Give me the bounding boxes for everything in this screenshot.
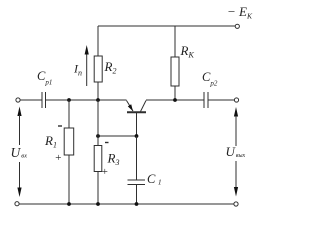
- wire RK top lead: [174, 26, 176, 57]
- svg-text:Uвых: Uвых: [226, 144, 246, 159]
- wire R2 bottom lead: [97, 82, 99, 100]
- svg-text:R1: R1: [44, 133, 57, 150]
- svg-text:+: +: [101, 166, 108, 178]
- terminal input bottom: [15, 202, 19, 206]
- label R1 minus: [58, 125, 62, 127]
- svg-text:R2: R2: [104, 59, 117, 76]
- terminal output bottom: [234, 202, 238, 206]
- svg-text:Cр1: Cр1: [37, 69, 52, 87]
- node C1 bottom: [135, 202, 139, 206]
- svg-text:RК: RК: [180, 43, 195, 60]
- wire R2 top lead: [97, 26, 99, 56]
- resistor R3: [94, 146, 102, 172]
- terminal input top: [16, 98, 20, 102]
- svg-text:C1: C1: [147, 172, 162, 187]
- wire R1 top lead: [68, 100, 70, 128]
- resistor RK: [171, 57, 179, 86]
- node R3 bottom: [96, 202, 100, 206]
- wire collector to Cp2: [146, 99, 204, 101]
- wire top rail: [98, 25, 236, 27]
- svg-text:− EК: − EК: [227, 4, 253, 21]
- capacitor Cp1: [41, 92, 43, 108]
- terminal output top: [234, 98, 238, 102]
- node base-branch right: [135, 134, 139, 138]
- node RK bottom: [173, 98, 177, 102]
- resistor R2: [94, 56, 102, 82]
- wire C1 to ground rail: [136, 185, 138, 205]
- node base-branch left: [96, 134, 100, 138]
- wire base node to C1: [136, 136, 138, 180]
- node R1 bottom: [67, 202, 71, 206]
- svg-text:Iп: Iп: [73, 62, 82, 78]
- arrow Uin: [17, 107, 21, 117]
- transistor VT base bar: [127, 111, 146, 113]
- capacitor Cp2: [203, 92, 205, 108]
- wire Cp2 to output terminal: [208, 99, 234, 101]
- label R3 minus: [105, 142, 109, 144]
- arrow Uout: [234, 107, 238, 117]
- node R1 top: [67, 98, 71, 102]
- wire base node branch: [98, 135, 137, 137]
- transistor VT emitter: [127, 101, 134, 112]
- wire R3 bottom lead: [97, 172, 99, 205]
- transistor VT collector: [141, 101, 147, 112]
- terminal -EK: [235, 24, 239, 28]
- capacitor C1: [128, 179, 146, 181]
- svg-text:Cр2: Cр2: [202, 70, 218, 88]
- wire input to Cp1: [20, 99, 42, 101]
- wire Cp1 to emitter: [46, 99, 127, 101]
- svg-text:+: +: [55, 152, 62, 164]
- wire base lead: [136, 113, 138, 136]
- node R2 bottom: [96, 98, 100, 102]
- wire R1 bottom lead: [68, 155, 70, 204]
- svg-text:R3: R3: [107, 151, 120, 168]
- svg-text:Uвх: Uвх: [11, 145, 28, 160]
- wire divider vertical upper: [97, 100, 99, 146]
- wire bottom rail: [19, 203, 234, 205]
- current arrow In: [86, 53, 88, 86]
- wire RK bottom lead: [174, 86, 176, 100]
- resistor R1: [64, 128, 74, 155]
